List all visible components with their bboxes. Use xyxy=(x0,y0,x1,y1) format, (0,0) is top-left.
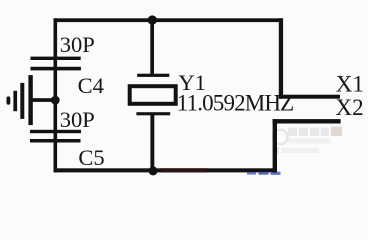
svg-text:11.0592MHZ: 11.0592MHZ xyxy=(177,91,294,116)
capacitor C4 xyxy=(31,57,81,71)
svg-text:C4: C4 xyxy=(78,73,104,98)
wire: crystal bottom lead xyxy=(150,115,154,172)
wire: left vertical branch through C4/C5 xyxy=(54,18,58,172)
node: junction dot on bottom bus at crystal branch xyxy=(149,166,158,175)
wire: ground stub xyxy=(32,98,56,102)
ground xyxy=(7,75,33,125)
svg-text:X2: X2 xyxy=(336,95,364,120)
node: junction dot at ground tap xyxy=(51,96,60,105)
svg-text:C5: C5 xyxy=(78,145,104,170)
watermark blue smudge on bottom bus xyxy=(247,172,256,175)
wire: right vertical branch to X1 xyxy=(279,18,283,98)
watermark xyxy=(273,127,342,155)
capacitor C5 xyxy=(30,130,81,143)
wire: crystal top lead xyxy=(150,18,154,76)
node: junction dot on top bus at crystal branch xyxy=(148,15,157,24)
crystal Y1 xyxy=(130,74,176,116)
wire: X2 vertical down to bottom bus xyxy=(273,119,277,172)
wire: reddish tinted segment of bottom bus xyxy=(161,168,207,172)
wire: bottom bus xyxy=(54,168,277,172)
wire: X2 stub xyxy=(273,119,341,123)
svg-text:X1: X1 xyxy=(336,72,364,97)
svg-text:30P: 30P xyxy=(60,107,95,132)
wire: X1 stub xyxy=(279,95,340,99)
wire: top bus from left branch to right branch xyxy=(54,18,283,22)
svg-text:30P: 30P xyxy=(60,32,95,57)
